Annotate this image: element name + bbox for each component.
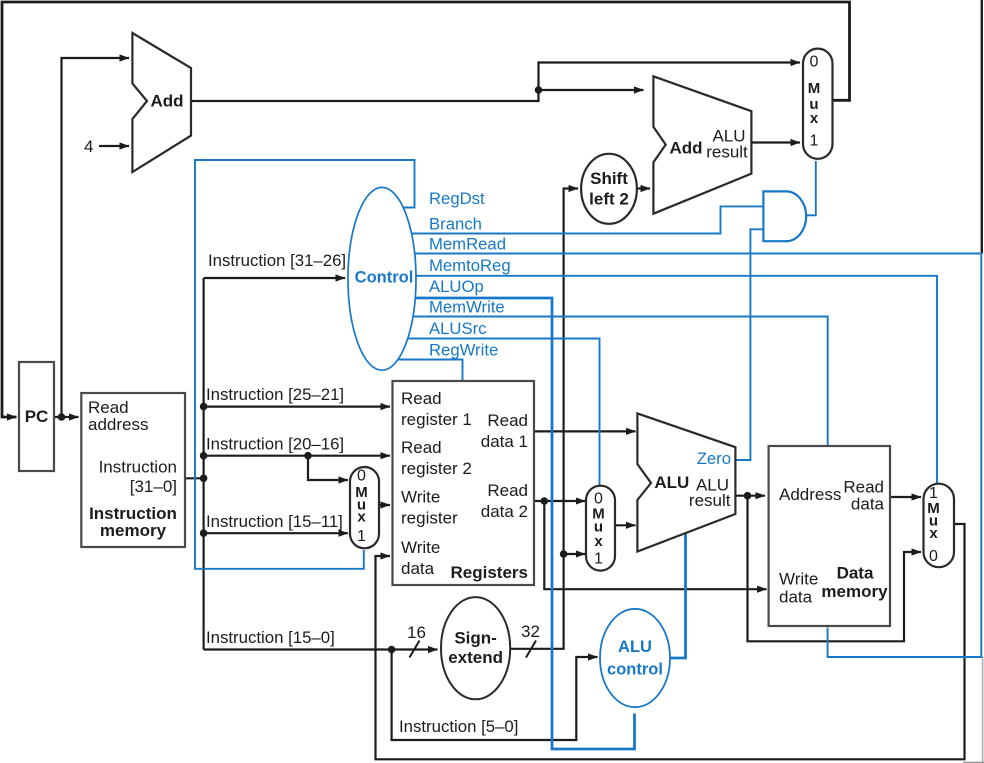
wire faint right edge artifact — [982, 657, 984, 763]
svg-text:1: 1 — [594, 551, 603, 568]
svg-text:memory: memory — [821, 582, 888, 601]
node instruction bus 20-16 — [200, 452, 208, 460]
svg-text:Add: Add — [150, 92, 183, 111]
wire MemWrite blue to data memory top — [400, 317, 828, 448]
svg-text:data: data — [779, 588, 813, 607]
bus slash 32 — [526, 641, 536, 658]
wire sign extend to ALUSrc mux input 1 — [564, 553, 586, 555]
wire RegWrite blue to registers top — [395, 360, 463, 384]
wire PC-source mux output loop to PC input — [2, 2, 850, 417]
ALU — [637, 413, 735, 551]
svg-text:MemRead: MemRead — [429, 235, 506, 254]
wire read data 1 to ALU — [534, 430, 636, 432]
instruction memory box — [81, 393, 185, 547]
wire ALU result to data memory address — [735, 495, 765, 497]
svg-text:Address: Address — [779, 485, 841, 504]
node 20-16 branch — [304, 452, 312, 460]
adder branch Add — [653, 76, 751, 213]
svg-text:Add: Add — [669, 139, 702, 158]
wire data memory read data to mux 1 — [890, 496, 921, 498]
wire sign extend output up to shift left 2 — [509, 189, 578, 649]
ALU control ellipse — [600, 609, 670, 707]
wire Instruction 5-0 to ALU control — [392, 650, 598, 741]
wire PC+4 to mux0 top right — [539, 63, 801, 91]
svg-text:left 2: left 2 — [589, 189, 629, 208]
mux write register — [350, 467, 379, 548]
wire Instruction 15-11 to mux — [204, 532, 348, 534]
wire AND output to mux bottom — [805, 161, 816, 215]
svg-text:Read: Read — [487, 481, 528, 500]
wire ALUOp blue thick to ALU control — [400, 298, 635, 749]
svg-text:1: 1 — [810, 133, 819, 150]
wire Instruction 31-26 to Control — [204, 277, 345, 279]
wire 20-16 branch to mux — [308, 456, 348, 480]
svg-text:Zero: Zero — [697, 449, 731, 468]
svg-text:data 2: data 2 — [481, 502, 528, 521]
svg-text:Read: Read — [401, 389, 442, 408]
wire branch adder ALU result to mux1 — [751, 141, 800, 143]
svg-text:Instruction [31–26]: Instruction [31–26] — [208, 251, 346, 270]
wire ALU result loop to memtoreg mux 0 — [748, 496, 922, 642]
shift left 2 ellipse — [581, 154, 637, 224]
sign extend ellipse — [441, 597, 510, 699]
wire ALU control output to ALU — [660, 534, 686, 658]
wire Zero blue to AND gate — [735, 229, 763, 460]
svg-text:x: x — [929, 525, 938, 542]
wire Instruction 20-16 — [204, 455, 390, 457]
node ALU result branch — [744, 492, 752, 500]
wire write back loop to registers write data — [376, 524, 965, 759]
svg-text:Registers: Registers — [451, 563, 528, 582]
svg-text:Read: Read — [401, 438, 442, 457]
svg-text:Data: Data — [837, 564, 874, 583]
control ellipse — [348, 187, 416, 370]
svg-text:data 1: data 1 — [481, 432, 528, 451]
svg-text:Write: Write — [401, 488, 440, 507]
svg-text:Instruction [20–16]: Instruction [20–16] — [206, 435, 344, 454]
wire Instruction 15-0 to sign extend — [204, 648, 438, 650]
wire Instruction 25-21 — [204, 406, 390, 408]
svg-text:32: 32 — [521, 622, 540, 641]
svg-text:Write: Write — [779, 570, 818, 589]
wire instruction bus vertical — [203, 278, 205, 650]
svg-text:1: 1 — [357, 528, 366, 545]
wire faint bottom edge artifact — [963, 761, 984, 763]
wire Branch blue to AND gate — [400, 206, 763, 233]
node 15-0 branch — [388, 646, 396, 654]
svg-text:Shift: Shift — [590, 169, 628, 188]
wire PC output up to Add — [62, 58, 130, 417]
wire right edge artifact — [981, 0, 983, 254]
svg-text:0: 0 — [929, 548, 938, 565]
wire MemRead blue to data memory bottom — [400, 254, 981, 658]
node PC output junction — [58, 413, 66, 421]
PC register box — [19, 362, 54, 471]
wire instruction memory output port — [185, 477, 204, 479]
registers box — [393, 381, 535, 585]
svg-text:address: address — [88, 415, 148, 434]
svg-text:PC: PC — [25, 407, 49, 426]
wire shift left 2 output to branch adder — [637, 187, 650, 189]
svg-text:result: result — [706, 143, 748, 162]
svg-text:x: x — [810, 110, 819, 127]
svg-text:Sign-: Sign- — [454, 629, 497, 648]
svg-text:0: 0 — [357, 468, 366, 485]
svg-text:control: control — [607, 661, 663, 679]
svg-text:MemWrite: MemWrite — [429, 298, 505, 317]
svg-text:Instruction [25–21]: Instruction [25–21] — [206, 385, 344, 404]
svg-text:RegDst: RegDst — [429, 189, 485, 208]
svg-text:data: data — [401, 559, 435, 578]
svg-text:Instruction: Instruction — [99, 458, 177, 477]
svg-text:data: data — [851, 494, 885, 513]
svg-text:memory: memory — [100, 521, 167, 540]
svg-text:Instruction [5–0]: Instruction [5–0] — [399, 717, 518, 736]
svg-text:result: result — [689, 491, 731, 510]
wire read data 2 branch to data memory write data — [544, 501, 766, 589]
svg-text:4: 4 — [84, 137, 93, 156]
wire RegDst blue loop to write register mux — [195, 160, 415, 569]
svg-text:M: M — [808, 80, 821, 97]
svg-text:ALU: ALU — [654, 473, 689, 492]
mux MemtoReg — [924, 484, 955, 568]
svg-text:Control: Control — [355, 268, 414, 286]
svg-text:Write: Write — [401, 538, 440, 557]
wire read data 2 to ALUSrc mux — [534, 500, 585, 502]
svg-text:Instruction [15–0]: Instruction [15–0] — [206, 628, 335, 647]
wire PC+4 to branch adder — [539, 89, 644, 91]
svg-text:ALUOp: ALUOp — [429, 277, 484, 296]
mux ALUSrc — [586, 486, 615, 571]
node instruction bus 31-0 — [200, 475, 208, 483]
wire 4 into Add — [99, 145, 129, 147]
svg-text:MemtoReg: MemtoReg — [429, 256, 511, 275]
wire Add output PC+4 — [191, 90, 539, 101]
svg-text:x: x — [357, 509, 366, 526]
data memory box — [769, 446, 890, 626]
node PC+4 junction — [535, 86, 543, 94]
wire write register mux output — [379, 504, 390, 506]
AND gate — [763, 191, 806, 241]
mux PC source top right — [803, 49, 833, 159]
wire ALUSrc blue to mux top — [400, 339, 600, 488]
node instruction bus 15-11 — [200, 529, 208, 537]
wire PC output to instruction memory — [54, 416, 79, 418]
svg-text:[31–0]: [31–0] — [130, 477, 177, 496]
svg-text:register 1: register 1 — [401, 410, 472, 429]
node instruction bus 25-21 — [200, 403, 208, 411]
svg-text:register 2: register 2 — [401, 459, 472, 478]
svg-text:register: register — [401, 509, 458, 528]
wire MemtoReg blue to right mux top — [400, 276, 937, 486]
svg-text:16: 16 — [407, 623, 426, 642]
svg-text:x: x — [594, 533, 603, 550]
adder Add (PC+4) — [132, 33, 191, 172]
svg-text:ALU: ALU — [618, 638, 652, 656]
svg-text:Read: Read — [487, 411, 528, 430]
svg-text:0: 0 — [810, 54, 819, 71]
svg-text:Instruction [15–11]: Instruction [15–11] — [206, 512, 343, 531]
svg-text:RegWrite: RegWrite — [429, 341, 498, 360]
svg-text:extend: extend — [448, 648, 503, 667]
bus slash 16 — [410, 641, 420, 658]
svg-text:ALUSrc: ALUSrc — [429, 319, 487, 338]
wire ALUSrc mux output to ALU — [615, 524, 636, 526]
svg-text:Branch: Branch — [429, 215, 482, 234]
node sign extend branch — [560, 550, 568, 558]
node read data 2 branch — [541, 497, 549, 505]
